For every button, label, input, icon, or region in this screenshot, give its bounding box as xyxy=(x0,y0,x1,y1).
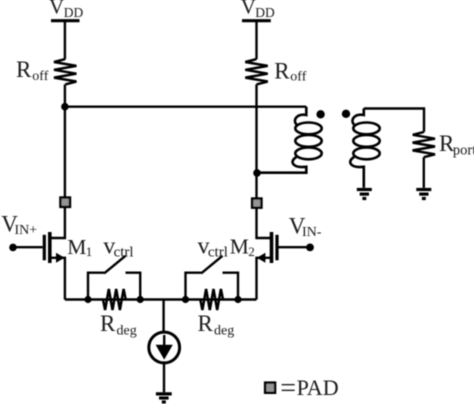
svg-text:=: = xyxy=(280,373,296,404)
svg-text:port: port xyxy=(453,143,474,159)
svg-text:IN+: IN+ xyxy=(15,223,38,238)
svg-text:R: R xyxy=(274,58,290,83)
svg-text:DD: DD xyxy=(64,5,84,20)
svg-text:R: R xyxy=(198,311,214,336)
svg-text:deg: deg xyxy=(117,324,137,339)
svg-text:R: R xyxy=(100,311,116,336)
svg-text:PAD: PAD xyxy=(297,375,339,400)
svg-text:M: M xyxy=(67,235,86,259)
svg-text:IN-: IN- xyxy=(302,225,322,240)
svg-text:V: V xyxy=(241,0,256,19)
svg-text:V: V xyxy=(49,0,64,19)
svg-text:off: off xyxy=(32,69,48,84)
svg-text:R: R xyxy=(16,57,32,82)
svg-text:1: 1 xyxy=(86,244,93,259)
svg-text:2: 2 xyxy=(248,244,255,259)
svg-text:off: off xyxy=(290,70,306,85)
svg-text:DD: DD xyxy=(255,5,275,20)
svg-text:ctrl: ctrl xyxy=(114,244,134,260)
svg-text:deg: deg xyxy=(214,324,234,339)
svg-text:M: M xyxy=(230,234,249,258)
svg-text:ctrl: ctrl xyxy=(208,244,228,260)
